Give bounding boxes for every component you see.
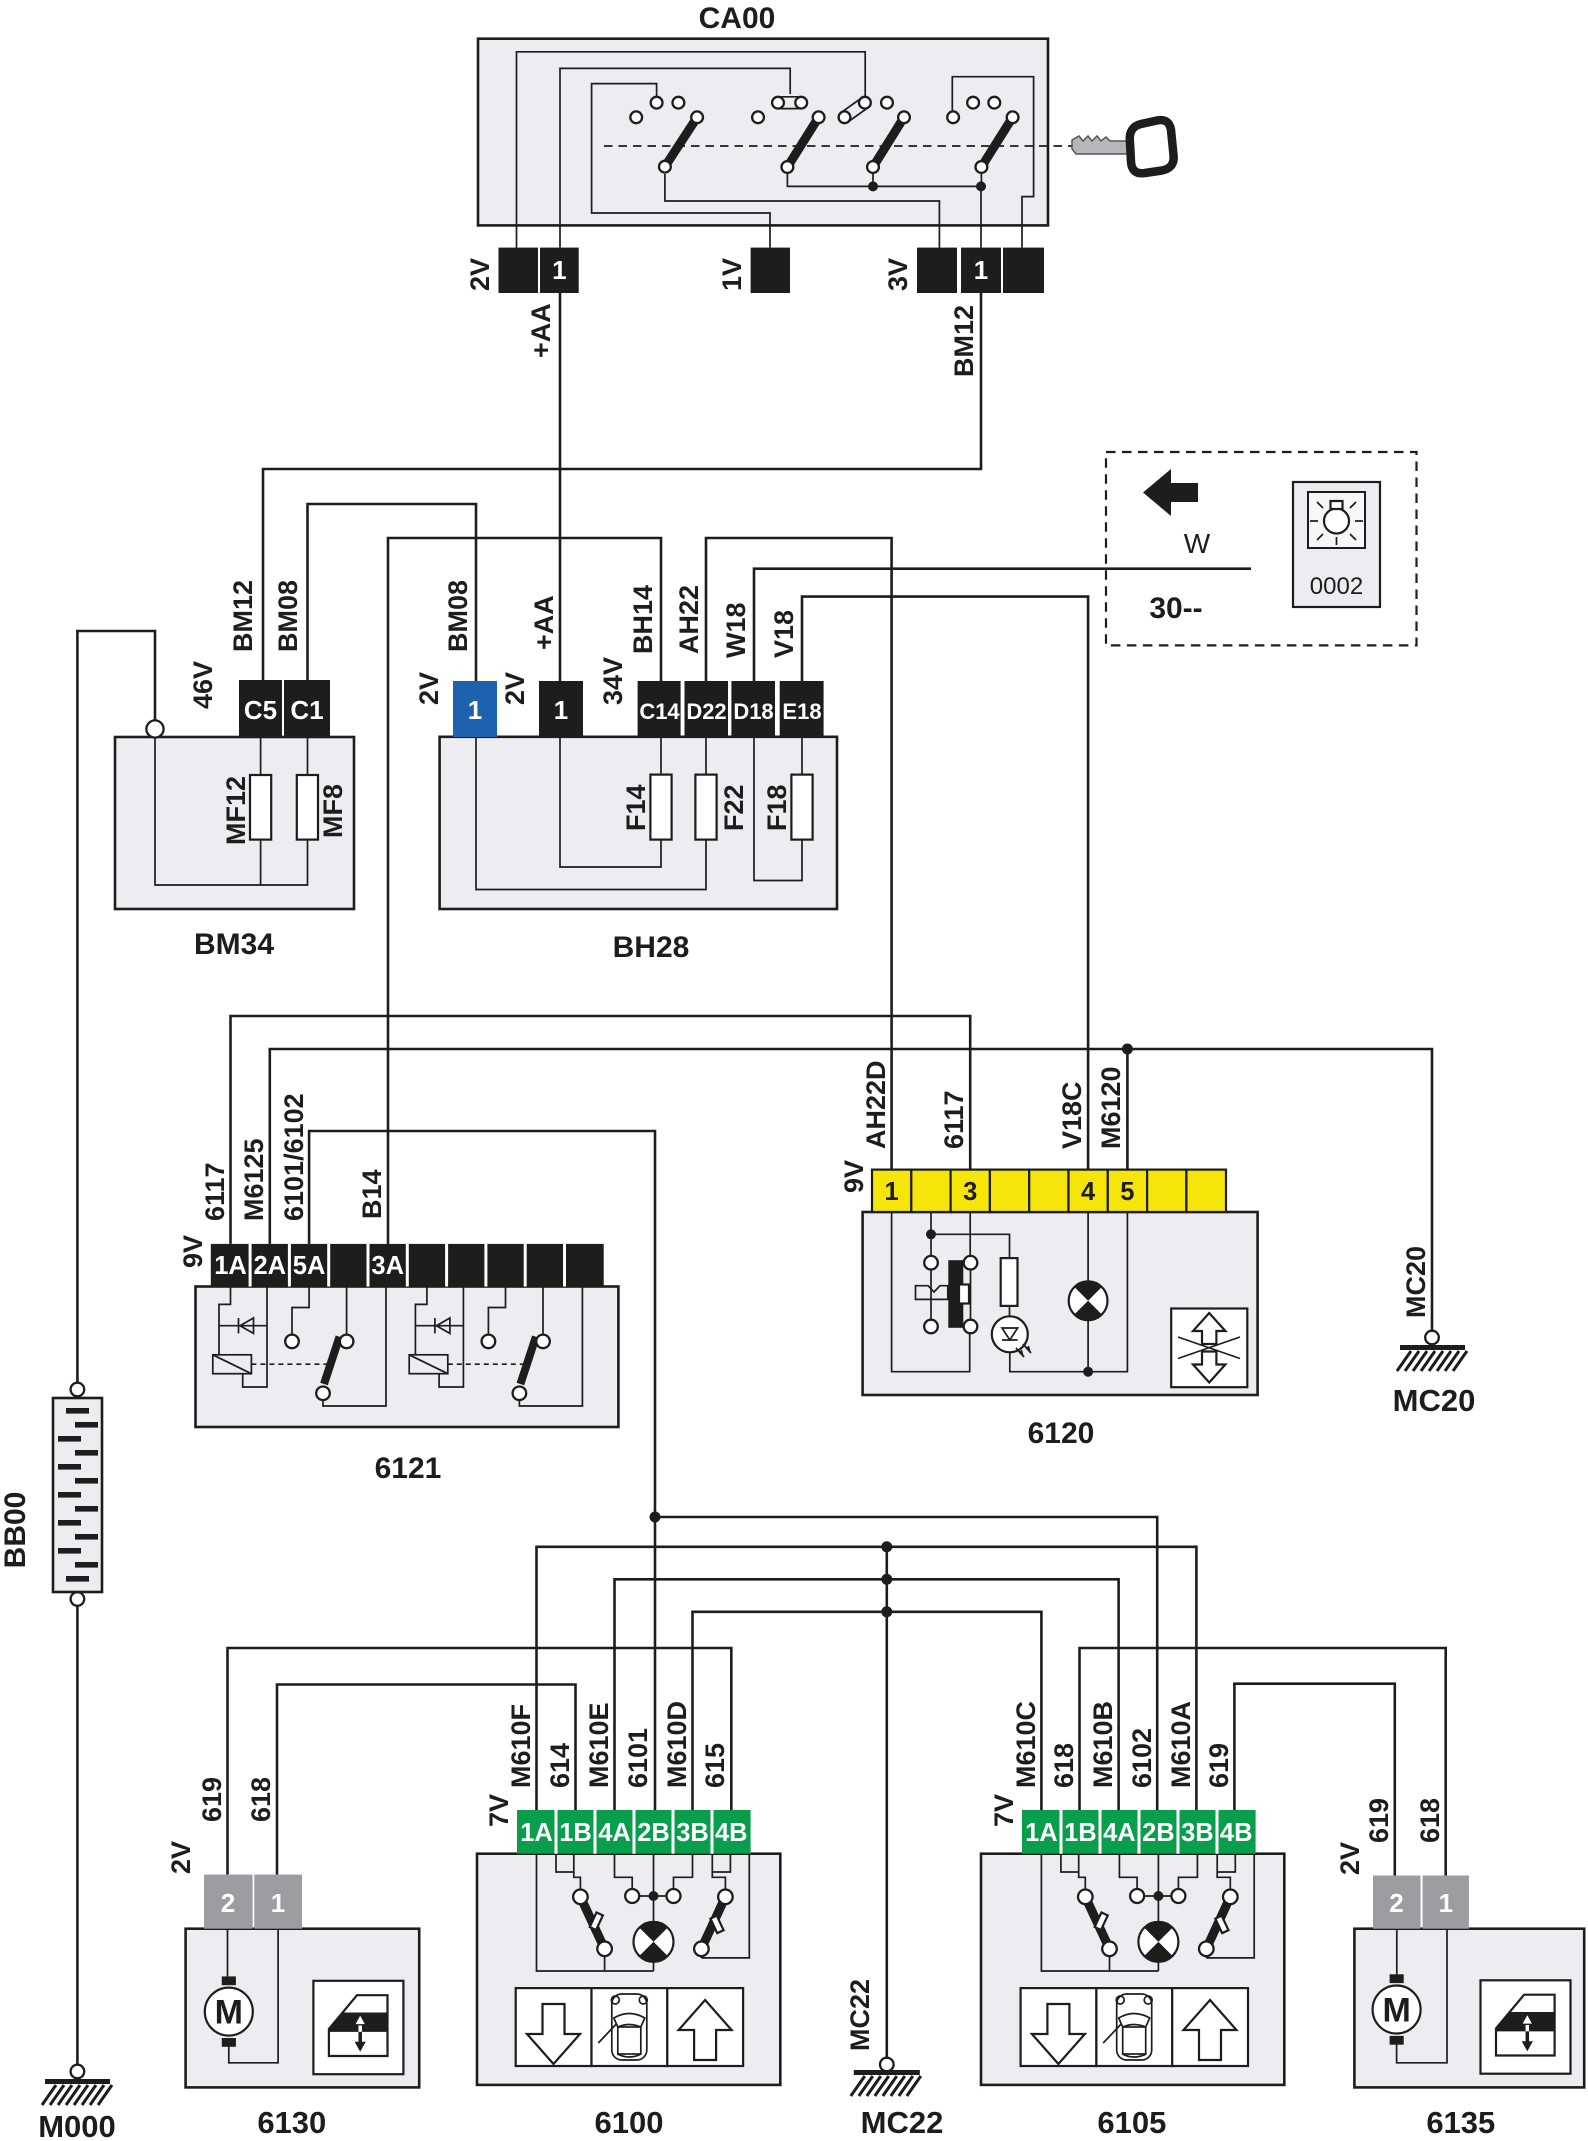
relay 1 of 6121: [213, 1287, 386, 1407]
svg-text:MF12: MF12: [221, 776, 251, 845]
connector 2V block: [499, 248, 539, 293]
6100 internal: 4B tab and feed: [712, 1854, 730, 1890]
fuse MF8: [297, 775, 318, 840]
svg-text:M610B: M610B: [1088, 1701, 1118, 1788]
wire M6120 from 6120 pin5 to ground line: [1126, 1049, 1129, 1170]
wire 619/615 from 6130 pin2 to 6100 4B: [228, 1648, 732, 1875]
6130 internal wires: [228, 1929, 279, 2063]
fuse box BH28 body: [440, 737, 837, 909]
CA00 junction dot S3 common: [868, 181, 878, 191]
svg-text:618: 618: [246, 1777, 276, 1822]
svg-text:2B: 2B: [1142, 1819, 1175, 1847]
svg-text:619: 619: [1364, 1798, 1394, 1843]
svg-text:4A: 4A: [1103, 1819, 1136, 1847]
svg-text:M610C: M610C: [1011, 1701, 1041, 1788]
6100 icon row: down arrow: [516, 1988, 592, 2066]
svg-text:D18: D18: [733, 699, 773, 724]
connector strip 6105 green: [1022, 1810, 1256, 1854]
fuse MF12: [250, 775, 271, 840]
svg-text:6100: 6100: [595, 2105, 664, 2140]
svg-text:1: 1: [468, 695, 482, 725]
svg-text:F18: F18: [762, 784, 792, 831]
window lift icon 6135: [1481, 1980, 1571, 2073]
connector BH28 pin 1 black: [539, 681, 583, 737]
dashed frame item 0002: [1106, 452, 1417, 645]
auto up/down window icon 6120: [1171, 1309, 1247, 1388]
6100 internal: 4B rail: [701, 1854, 749, 1958]
wire M610D/M610C ground line: [693, 1612, 1042, 1810]
relay 2 of 6121: [409, 1287, 582, 1407]
svg-text:2B: 2B: [637, 1819, 670, 1847]
svg-text:MF8: MF8: [318, 784, 348, 838]
6135 internal wires: [1397, 1929, 1447, 2063]
svg-text:4: 4: [1081, 1178, 1096, 1206]
svg-text:4A: 4A: [598, 1819, 631, 1847]
CA00 switch S3 tilted jumper capsule: [841, 98, 868, 122]
wire 46V from BM34 to BB00: [77, 631, 155, 1383]
svg-text:W: W: [1184, 528, 1211, 559]
svg-text:3V: 3V: [883, 258, 913, 291]
6100 internal: 1B tab and feed: [556, 1854, 580, 1890]
svg-text:+AA: +AA: [529, 595, 559, 650]
svg-text:6102: 6102: [1127, 1728, 1157, 1788]
svg-text:V18C: V18C: [1057, 1081, 1087, 1149]
wire 618 from 6105 1B to 6135 pin1: [1080, 1648, 1446, 1876]
svg-text:2: 2: [1389, 1888, 1403, 1918]
svg-text:1: 1: [974, 255, 988, 285]
svg-text:C5: C5: [244, 695, 277, 725]
relay unit 6121 body: [196, 1287, 619, 1428]
svg-text:CA00: CA00: [699, 2, 776, 35]
svg-text:1: 1: [1439, 1888, 1453, 1918]
window motor 6130 body: [186, 1929, 420, 2088]
svg-text:6101/6102: 6101/6102: [279, 1093, 309, 1221]
junction dot M6120/MC20: [1122, 1044, 1133, 1055]
lock switch contacts 6120: [924, 1256, 938, 1270]
connector D18: [731, 681, 775, 737]
svg-text:619: 619: [197, 1777, 227, 1822]
BH28 internal wire from pin1-blue through F22 to D22: [476, 737, 706, 890]
fuse F18: [791, 775, 812, 840]
connector 3V block: [917, 248, 957, 293]
svg-text:3A: 3A: [371, 1252, 404, 1280]
wire W18 from BH28 D18 to item 0002: [754, 569, 1251, 681]
svg-text:6117: 6117: [200, 1162, 230, 1221]
svg-text:BM34: BM34: [194, 928, 274, 961]
svg-text:B14: B14: [357, 1169, 387, 1219]
wire 619 from 6105 4B to 6135 pin2: [1234, 1684, 1394, 1876]
connector strip 6100 green: [517, 1810, 751, 1854]
svg-text:615: 615: [700, 1743, 730, 1788]
svg-text:1A: 1A: [1025, 1819, 1058, 1847]
svg-text:3B: 3B: [1181, 1819, 1214, 1847]
svg-text:1: 1: [271, 1888, 285, 1918]
BM34 pin 46V circle: [146, 720, 163, 737]
svg-text:BB00: BB00: [0, 1492, 32, 1569]
svg-text:6130: 6130: [257, 2105, 326, 2140]
LED in 6120: [992, 1316, 1028, 1352]
bulb icon: [1310, 501, 1363, 545]
6105 internals (same as 6100): [1021, 1854, 1255, 2066]
svg-text:1A: 1A: [214, 1252, 247, 1280]
svg-text:W18: W18: [721, 602, 751, 658]
connector 1V block: [751, 248, 790, 293]
window switch 6105 body: [981, 1854, 1284, 2085]
CA00 switch S3 bar: [873, 117, 904, 167]
svg-text:1: 1: [554, 695, 568, 725]
connector E18: [780, 681, 824, 737]
arrow icon in dashed frame: [1143, 469, 1198, 516]
svg-text:M610A: M610A: [1166, 1701, 1196, 1788]
CA00 internal wire from switch S1 common to pin 3V-a: [665, 174, 940, 248]
svg-text:1: 1: [552, 255, 566, 285]
svg-text:BM12: BM12: [228, 580, 258, 652]
svg-text:5: 5: [1120, 1178, 1134, 1206]
svg-text:2V: 2V: [1335, 1842, 1365, 1875]
junction dot 6101/6102: [650, 1512, 661, 1523]
svg-text:3: 3: [963, 1178, 977, 1206]
svg-text:BM08: BM08: [273, 580, 303, 652]
wire M610E/M610B ground line: [615, 1579, 1119, 1810]
switch unit 6120 body: [863, 1212, 1258, 1395]
CA00 internal wire from pin 1V to switch S1 upper contact: [592, 84, 770, 248]
wire +AA from CA00 to BH28: [559, 293, 562, 681]
svg-text:6117: 6117: [939, 1090, 969, 1149]
6100 icon row: up arrow: [667, 1988, 743, 2066]
wire V18 from BH28 E18 to 6120 pin4: [802, 597, 1088, 1170]
junction dots on MC22 drop: [881, 1541, 892, 1552]
svg-text:F14: F14: [621, 784, 651, 831]
svg-text:6121: 6121: [375, 1452, 442, 1485]
6100 icon row: car: [592, 1988, 668, 2066]
svg-text:46V: 46V: [188, 661, 218, 709]
svg-text:+AA: +AA: [526, 303, 556, 358]
svg-text:4B: 4B: [1220, 1819, 1253, 1847]
wire 6117 from 6121 1A to 6120 pin3: [231, 1016, 971, 1244]
fuse box BM34 body: [115, 737, 354, 909]
svg-text:1A: 1A: [520, 1819, 553, 1847]
svg-text:M610D: M610D: [662, 1701, 692, 1788]
CA00 switch S1 bar: [665, 117, 697, 166]
svg-text:M6120: M6120: [1096, 1066, 1126, 1149]
6100 internal: 4A feed to lamp contact: [615, 1854, 633, 1889]
lamp in 6120: [1087, 1212, 1089, 1372]
key lock symbol 6120: [916, 1286, 948, 1300]
6100 internal: 3B feed to lamp contact: [674, 1854, 693, 1889]
ground M000: [71, 2065, 85, 2079]
svg-text:M000: M000: [38, 2109, 116, 2141]
svg-text:1V: 1V: [717, 258, 747, 291]
svg-text:2: 2: [221, 1888, 235, 1918]
wire BB00 to ground M000: [71, 1592, 85, 1606]
ground MC20: [1425, 1331, 1439, 1345]
svg-text:3B: 3B: [676, 1819, 709, 1847]
wire M6125 from 6121 2A to ground MC20: [270, 1049, 1432, 1331]
svg-text:BM12: BM12: [949, 305, 979, 377]
connector C1: [284, 680, 330, 737]
ignition switch CA00 body: [478, 39, 1048, 226]
connector 6135 pins grey: [1373, 1876, 1421, 1929]
junction dot 6120 internal: [926, 1229, 936, 1239]
svg-text:1: 1: [885, 1178, 899, 1206]
svg-text:MC22: MC22: [861, 2105, 944, 2140]
svg-text:1B: 1B: [1064, 1819, 1097, 1847]
6100 internal: 1A rail: [537, 1854, 654, 1971]
svg-text:7V: 7V: [484, 1794, 514, 1827]
svg-text:M6125: M6125: [239, 1138, 269, 1221]
CA00 switch S2 jumper capsule: [778, 97, 801, 109]
svg-text:F22: F22: [719, 784, 749, 831]
CA00 switch S4 bar: [981, 117, 1012, 167]
svg-text:M610F: M610F: [506, 1704, 536, 1788]
svg-text:6105: 6105: [1097, 2105, 1166, 2140]
svg-text:2V: 2V: [500, 672, 530, 705]
svg-text:MC22: MC22: [845, 1979, 875, 2051]
svg-text:34V: 34V: [598, 657, 628, 705]
BH28 internal wire from pin1-black through F14 to C14: [560, 737, 661, 867]
svg-text:AH22D: AH22D: [861, 1060, 891, 1149]
CA00 internal wire from pin 2V-a to switch S3 jumper: [517, 52, 866, 248]
svg-text:618: 618: [1049, 1743, 1079, 1788]
wire 618/614 from 6130 pin1 to 6100 1B: [277, 1685, 576, 1875]
window switch 6100 body: [477, 1854, 780, 2085]
svg-text:619: 619: [1204, 1743, 1234, 1788]
svg-text:1B: 1B: [559, 1819, 592, 1847]
svg-text:4B: 4B: [715, 1819, 748, 1847]
svg-text:6101: 6101: [623, 1728, 653, 1788]
window lift icon 6130: [313, 1981, 403, 2074]
fuse F22: [695, 775, 716, 840]
6100 lamp contacts: [639, 1854, 666, 1971]
svg-text:M610E: M610E: [584, 1702, 614, 1788]
svg-text:30--: 30--: [1149, 592, 1202, 625]
connector C5: [239, 680, 282, 737]
wire BM12 from CA00 to BM34 C5: [263, 293, 981, 680]
svg-text:2V: 2V: [166, 1841, 196, 1874]
svg-text:7V: 7V: [989, 1794, 1019, 1827]
window motor 6135 body: [1354, 1929, 1584, 2088]
svg-text:C14: C14: [639, 699, 680, 724]
junction dot lamp bottom: [1083, 1367, 1093, 1377]
svg-text:9V: 9V: [178, 1235, 208, 1268]
connector strip of 6121: [211, 1244, 604, 1287]
wire 6101/6102 from 6121 5A down to junction: [309, 1131, 655, 1810]
svg-text:2V: 2V: [465, 258, 495, 291]
fuse F14: [650, 775, 671, 840]
wire M610F/M610A ground line: [537, 1547, 1197, 1810]
wire B14 from BH28 C14 to 6121 3A: [388, 538, 661, 1244]
connector C14: [638, 681, 681, 737]
connector BH28 pin 1 blue: [453, 681, 497, 737]
svg-text:MC20: MC20: [1401, 1246, 1431, 1318]
ignition key icon: [1072, 120, 1174, 173]
svg-text:618: 618: [1415, 1798, 1445, 1843]
svg-text:MC20: MC20: [1393, 1383, 1476, 1418]
svg-text:BM08: BM08: [443, 580, 473, 652]
wire 6102 to 6105 2B: [655, 1517, 1157, 1810]
svg-text:9V: 9V: [839, 1160, 869, 1193]
CA00 internal common wire S2-S3-S4 to pin 3V-b: [787, 174, 981, 248]
CA00 switch S1 contacts: [630, 111, 642, 123]
CA00 dashed actuation line: [604, 145, 1072, 147]
lock switch moving bar 6120: [948, 1260, 963, 1328]
svg-text:C1: C1: [290, 695, 323, 725]
motor M 6130: [205, 1976, 253, 2046]
svg-text:D22: D22: [686, 699, 726, 724]
svg-text:BH14: BH14: [628, 585, 658, 654]
wire BM08 from BM34 C1 to BH28: [308, 504, 477, 681]
LED to lamp bottom rail: [1010, 1212, 1128, 1372]
6100 left switch: [580, 1897, 604, 1949]
svg-text:BH28: BH28: [613, 931, 690, 964]
CA00 switch S2 bar: [787, 117, 818, 167]
svg-text:614: 614: [545, 1743, 575, 1788]
svg-text:AH22: AH22: [674, 585, 704, 654]
wire AH22 from BH28 D22 to 6120 pin1: [706, 538, 892, 1170]
connector D22: [685, 681, 729, 737]
connector 6130 pins grey: [204, 1875, 253, 1929]
BM34 internal bus wire: [155, 737, 308, 885]
svg-text:E18: E18: [782, 699, 821, 724]
svg-text:0002: 0002: [1310, 573, 1363, 600]
svg-text:V18: V18: [769, 610, 799, 658]
CA00 junction dot S4 common: [976, 181, 986, 191]
connector strip BB00: [71, 1383, 85, 1397]
CA00 switch S4 contacts: [947, 111, 959, 123]
svg-text:2A: 2A: [253, 1252, 286, 1280]
CA00 internal wire from switch S4 contact to pin 3V-c: [952, 77, 1033, 248]
6100 right switch: [701, 1897, 725, 1949]
BH28 internal wire from D18 through F18 to E18: [754, 737, 802, 881]
svg-text:6120: 6120: [1028, 1417, 1095, 1450]
motor M 6135: [1373, 1974, 1421, 2044]
wire MC22 ground drop: [885, 1547, 888, 2058]
svg-text:6135: 6135: [1426, 2105, 1495, 2140]
svg-text:2V: 2V: [414, 672, 444, 705]
ground MC22: [880, 2058, 894, 2072]
6120 internal wiring: [892, 1212, 1010, 1372]
svg-text:5A: 5A: [293, 1252, 326, 1280]
connector strip of 6120 yellow: [872, 1170, 1226, 1212]
lamp item badge 0002: [1293, 482, 1380, 607]
fuse in 6120: [1001, 1258, 1018, 1306]
CA00 internal wire from pin +AA to switch S2 jumper: [560, 68, 790, 247]
6100 lamp: [634, 1922, 674, 1962]
